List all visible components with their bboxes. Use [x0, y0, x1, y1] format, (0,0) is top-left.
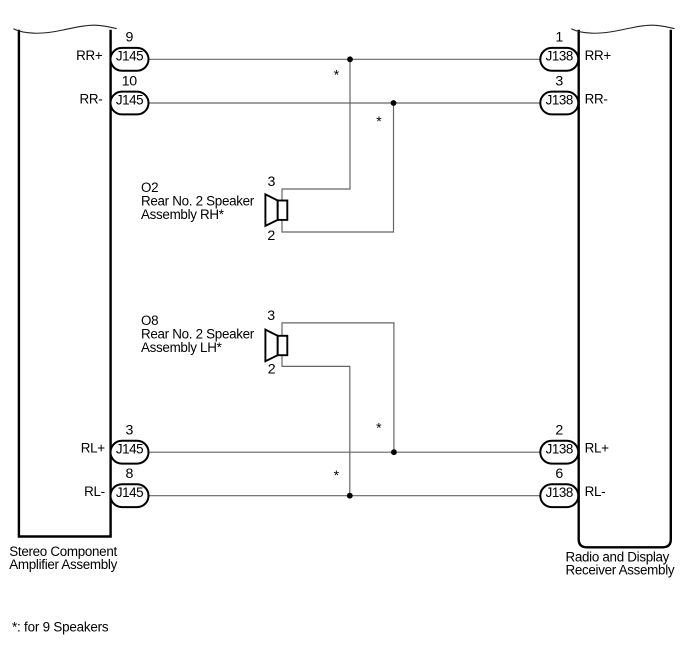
amplifier box torn top edge (wave) — [13, 25, 116, 33]
junction dot on RR+ at x350 — [347, 56, 353, 62]
svg-text:Assembly RH*: Assembly RH* — [141, 207, 224, 222]
svg-text:*: for 9 Speakers: *: for 9 Speakers — [12, 620, 109, 635]
wire speaker O8 pin 3 to RL+ — [282, 323, 394, 452]
svg-text:*: * — [334, 66, 340, 82]
pin number 3 (amplifier side) — [126, 423, 134, 439]
wire RL- (J145-8 to J138-6) — [149, 495, 541, 497]
connector J138 pin 6 (RL-) — [540, 484, 578, 507]
svg-text:RR-: RR- — [585, 92, 608, 107]
svg-text:Amplifier Assembly: Amplifier Assembly — [9, 557, 117, 572]
svg-text:Assembly LH*: Assembly LH* — [141, 340, 222, 355]
speaker O8 (Rear No. 2 Speaker Assembly LH) — [265, 330, 287, 362]
asterisk marker near RR- junction — [376, 113, 382, 129]
label RL+ right — [585, 441, 610, 456]
footnote — [12, 620, 109, 635]
junction dot on RR- at x393.5 — [391, 100, 397, 106]
label RL+ left — [81, 441, 106, 456]
pin number 1 — [555, 30, 563, 46]
svg-text:RL+: RL+ — [585, 441, 610, 456]
pin number 9 — [126, 30, 134, 46]
speaker O2 label — [141, 180, 255, 222]
svg-text:RR+: RR+ — [585, 48, 612, 63]
svg-text:J138: J138 — [546, 442, 573, 457]
amplifier box (Stereo Component Amplifier Assembly) — [19, 30, 111, 537]
pin number 10 — [122, 73, 138, 89]
svg-text:6: 6 — [555, 466, 563, 482]
receiver box torn top edge (wave) — [571, 25, 674, 33]
svg-text:Receiver Assembly: Receiver Assembly — [566, 563, 675, 578]
connector J145 pin 10 (RR-) — [111, 92, 149, 115]
speaker O8 label — [141, 313, 255, 355]
svg-text:3: 3 — [126, 423, 134, 439]
speaker O8 pin number 2 — [268, 361, 276, 377]
label RL- right — [585, 484, 606, 499]
svg-text:RL-: RL- — [585, 484, 606, 499]
speaker O2 pin number 3 — [268, 174, 276, 190]
svg-text:8: 8 — [126, 466, 134, 482]
svg-text:RL+: RL+ — [81, 441, 106, 456]
svg-text:*: * — [376, 419, 382, 435]
svg-text:J138: J138 — [546, 49, 573, 64]
speaker O2 pin number 2 — [267, 228, 275, 244]
pin number 8 — [126, 466, 134, 482]
amplifier box label — [9, 544, 117, 572]
speaker O8 pin number 3 — [267, 308, 275, 324]
wire RR+ (J145-9 to J138-1) — [149, 58, 541, 60]
junction dot on RL- at x349.8 — [347, 493, 353, 499]
svg-text:2: 2 — [555, 423, 563, 439]
svg-text:2: 2 — [268, 361, 276, 377]
label RR+ left — [76, 48, 103, 63]
svg-text:RL-: RL- — [84, 484, 105, 499]
svg-text:RR+: RR+ — [76, 48, 103, 63]
svg-text:J138: J138 — [546, 485, 573, 500]
wire RR- (J145-10 to J138-3) — [149, 102, 541, 104]
pin number 2 (receiver side) — [555, 423, 563, 439]
svg-text:9: 9 — [126, 30, 134, 46]
wire RL+ (J145-3 to J138-2) — [149, 451, 541, 453]
svg-text:3: 3 — [268, 174, 276, 190]
svg-text:J145: J145 — [116, 49, 143, 64]
speaker O2 (Rear No. 2 Speaker Assembly RH) — [265, 194, 287, 226]
svg-text:J138: J138 — [546, 92, 573, 107]
connector J138 pin 1 (RR+) — [540, 48, 578, 71]
receiver box label — [566, 549, 675, 577]
svg-text:1: 1 — [555, 30, 563, 46]
svg-text:J145: J145 — [116, 442, 143, 457]
pin number 6 — [555, 466, 563, 482]
label RR- right — [585, 92, 608, 107]
wire speaker O2 pin 2 to RR- — [282, 103, 394, 232]
svg-text:*: * — [334, 467, 340, 483]
wire speaker O8 pin 2 to RL- — [282, 355, 350, 496]
svg-text:J145: J145 — [116, 92, 143, 107]
connector J145 pin 3 (RL+) — [111, 441, 149, 464]
svg-text:3: 3 — [555, 73, 563, 89]
label RR+ right — [585, 48, 612, 63]
asterisk marker near RL- junction — [334, 467, 340, 483]
svg-text:2: 2 — [267, 228, 275, 244]
receiver box (Radio and Display Receiver Assembly) — [579, 30, 671, 548]
pin number 3 (receiver side) — [555, 73, 563, 89]
connector J138 pin 3 (RR-) — [540, 92, 578, 115]
svg-text:J145: J145 — [116, 485, 143, 500]
asterisk marker near RL+ junction — [376, 419, 382, 435]
svg-text:3: 3 — [267, 308, 275, 324]
svg-text:10: 10 — [122, 73, 138, 89]
connector J145 pin 9 (RR+) — [111, 48, 149, 71]
connector J138 pin 2 (RL+) — [540, 441, 578, 464]
svg-text:*: * — [376, 113, 382, 129]
label RL- left — [84, 484, 105, 499]
junction dot on RL+ at x393.9 — [391, 449, 397, 455]
label RR- left — [79, 92, 102, 107]
wire speaker O2 pin 3 to RR+ — [282, 59, 350, 200]
connector J145 pin 8 (RL-) — [111, 484, 149, 507]
asterisk marker near RR+ junction — [334, 66, 340, 82]
svg-text:RR-: RR- — [79, 92, 102, 107]
